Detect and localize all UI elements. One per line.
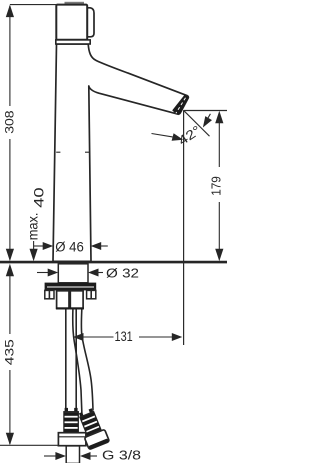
right hose (73, 310, 82, 417)
body tick marks (56, 151, 60, 153)
svg-text:max.: max. (25, 213, 41, 241)
left tail pipe (66, 446, 79, 463)
dim 308 line (9, 6, 11, 106)
svg-text:179: 179 (210, 176, 224, 196)
right hose stub (70, 291, 83, 309)
left mounting tab (45, 290, 54, 298)
dim G3/8 right arrow (80, 452, 91, 460)
dim 179 line (218, 121, 220, 167)
handle body (56, 5, 87, 40)
stub bottom edges (56, 307, 70, 309)
42 deg leader arrow on diagonal (203, 116, 212, 127)
escutcheon dark bar (45, 283, 97, 291)
42 deg leader arrow on vertical (172, 133, 184, 141)
dim diam46 right arrow (91, 242, 102, 250)
dim 435 arrows (6, 264, 14, 277)
svg-text:40: 40 (31, 187, 46, 208)
dim diam46 left arrow (34, 245, 45, 247)
svg-text:435: 435 (2, 339, 16, 366)
dim 435 line (9, 266, 11, 334)
stream axis vertical line (183, 110, 185, 345)
dim 308 extension line at handle top (10, 4, 57, 6)
left nut (58, 433, 86, 446)
right nut (84, 429, 109, 449)
aerator dark tip mass (172, 95, 188, 115)
dim 179 arrows (215, 111, 223, 124)
dim diam32 right arrow (88, 269, 99, 277)
svg-text:G 3/8: G 3/8 (102, 448, 141, 463)
handle lever tab (87, 8, 94, 37)
left hose stub (57, 291, 69, 309)
shank below deck (58, 264, 88, 283)
left crimp sleeve (65, 408, 68, 412)
deck line (0, 261, 227, 264)
dim 308 arrows (6, 5, 14, 18)
svg-text:308: 308 (2, 110, 16, 134)
svg-text:Ø 46: Ø 46 (55, 240, 84, 255)
right mounting tab (87, 290, 96, 298)
collar under handle (56, 40, 90, 44)
max 40 leader (33, 241, 35, 253)
dim G3/8 left arrow (44, 455, 57, 457)
dim 131 right arrow (139, 336, 173, 338)
left hose (65, 310, 67, 412)
right crimp sleeve and nut (angled) (75, 407, 109, 450)
aerator white slit dashes (176, 98, 186, 114)
dim 435 extension line at hose end (0, 444, 58, 446)
outlet extension line (184, 110, 227, 112)
handle grey cap (65, 2, 85, 5)
svg-text:131: 131 (115, 329, 133, 344)
svg-text:Ø 32: Ø 32 (106, 266, 139, 280)
dim 131 left arrow (73, 333, 84, 341)
42 degree diagonal (184, 111, 210, 136)
dim diam32 left arrow (37, 272, 50, 274)
faucet body and spout silhouette (53, 44, 188, 261)
